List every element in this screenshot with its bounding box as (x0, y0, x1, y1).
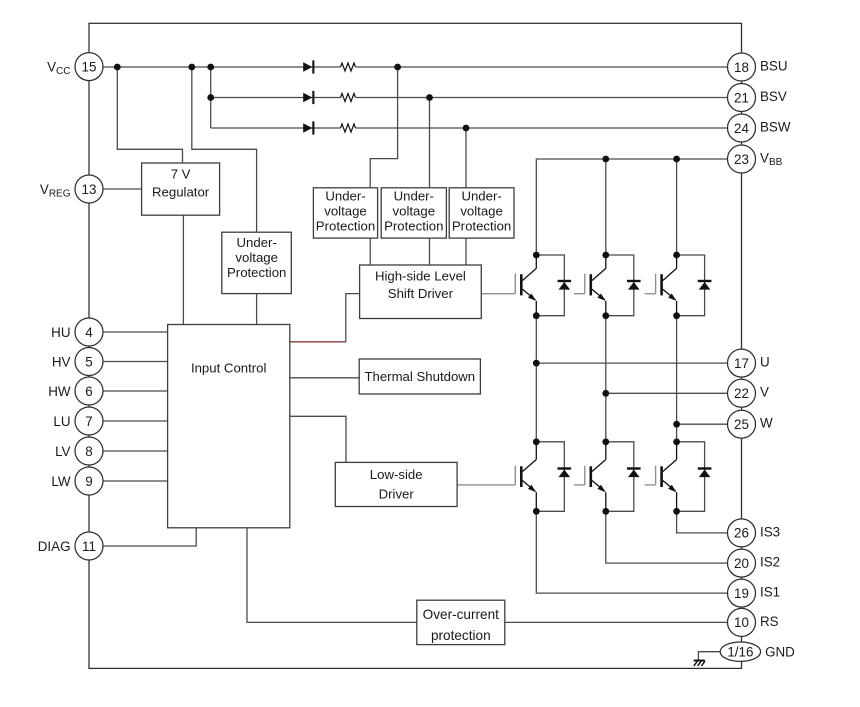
svg-text:U: U (760, 355, 770, 370)
wire gate stub low-side x676 (645, 484, 656, 486)
wire Input Control to over-current / RS (247, 528, 728, 623)
svg-text:1/16: 1/16 (727, 645, 753, 660)
wire BSV to under-voltage protection 2 (429, 98, 431, 188)
svg-text:Under-: Under- (394, 189, 434, 204)
svg-text:7: 7 (85, 414, 92, 429)
pin BSV 21 (728, 84, 787, 112)
svg-text:HU: HU (51, 325, 70, 340)
svg-text:9: 9 (85, 474, 92, 489)
wire IS2 sense (606, 511, 728, 563)
svg-text:26: 26 (734, 526, 749, 541)
pin BSU 18 (728, 53, 788, 81)
wire BSW bootstrap row (211, 124, 728, 132)
pin IS1 19 (728, 579, 781, 607)
svg-text:High-side Level: High-side Level (375, 268, 466, 283)
pin HW 6 (48, 377, 103, 405)
junction dots VBB rail (602, 156, 680, 163)
wire gate stub low-side x605 (574, 484, 585, 486)
svg-text:IS2: IS2 (760, 555, 780, 570)
wire LV pin to Input Control (103, 450, 168, 452)
wire LU pin to Input Control (103, 420, 168, 422)
wire U output (536, 362, 727, 364)
svg-text:Under-: Under- (325, 189, 365, 204)
wire to Thermal Shutdown (290, 377, 359, 379)
svg-text:21: 21 (734, 90, 749, 105)
wire VREG pin to regulator (103, 188, 142, 190)
svg-text:voltage: voltage (235, 250, 278, 265)
block high-side level shift driver (360, 265, 482, 319)
block thermal shutdown (359, 359, 480, 394)
junction dot BSW row (463, 125, 470, 132)
diode D1 (303, 60, 314, 73)
wire high-side gate-drive (red) (290, 341, 346, 343)
pin HU 4 (51, 318, 103, 346)
pin IS3 26 (728, 519, 781, 547)
block low-side driver (335, 462, 457, 506)
pin IS2 20 (728, 549, 781, 577)
transistor Q1 high-side U (515, 252, 571, 320)
svg-text:8: 8 (85, 444, 92, 459)
svg-text:DIAG: DIAG (38, 539, 71, 554)
wire High-side driver gate lead (481, 293, 515, 295)
junction dot V (602, 390, 609, 397)
transistor Q2 high-side V (585, 252, 641, 320)
svg-text:7 V: 7 V (171, 166, 191, 181)
wire under-voltage protection to Input Control (256, 294, 258, 325)
wire VBB drop to Q3 (676, 159, 678, 255)
wire BSU bootstrap row (103, 63, 728, 71)
transistor Q5 low-side V (585, 438, 641, 514)
svg-text:10: 10 (734, 615, 749, 630)
svg-text:HV: HV (52, 354, 71, 369)
svg-text:18: 18 (734, 60, 749, 75)
svg-text:13: 13 (82, 182, 97, 197)
svg-text:BSW: BSW (760, 119, 791, 134)
wire regulator to Input Control (182, 215, 184, 324)
svg-text:Under-: Under- (461, 189, 501, 204)
svg-text:19: 19 (734, 586, 749, 601)
pin LW 9 (51, 467, 103, 495)
svg-text:RS: RS (760, 614, 779, 629)
wire under-voltage protection 3 to high-side driver (465, 238, 467, 265)
svg-text:Input Control: Input Control (191, 360, 267, 375)
wire VBB rail (536, 159, 727, 255)
ground (694, 661, 705, 666)
svg-text:VBB: VBB (760, 150, 783, 168)
pin RS 10 (728, 608, 779, 636)
wire gate stub high-side x676 (645, 293, 656, 295)
wire V output (606, 392, 728, 394)
svg-text:Shift Driver: Shift Driver (388, 286, 454, 301)
wire under-voltage protection 2 to high-side driver (429, 238, 431, 265)
svg-text:Regulator: Regulator (152, 184, 210, 199)
block under-voltage protection (Vcc) (222, 232, 291, 293)
svg-text:BSU: BSU (760, 58, 788, 73)
svg-text:GND: GND (765, 645, 795, 660)
pin GND 1/16 (720, 642, 795, 661)
wire W output (677, 423, 728, 425)
pin LV 8 (55, 437, 103, 465)
wire gate stub high-side x605 (574, 293, 585, 295)
svg-text:11: 11 (82, 539, 96, 554)
wire BSV bootstrap row (211, 94, 728, 102)
svg-text:Protection: Protection (316, 219, 375, 234)
svg-text:15: 15 (82, 59, 97, 74)
svg-text:voltage: voltage (460, 204, 503, 219)
wire Vcc to under-voltage protection (192, 67, 257, 232)
junction dot U (533, 360, 540, 367)
svg-text:V: V (760, 385, 769, 400)
wire BSU to under-voltage protection 1 (370, 67, 397, 188)
svg-text:5: 5 (85, 354, 92, 369)
wire red riser to High-side driver (346, 294, 360, 342)
wire Vcc feed to BSV/BSW rows (210, 67, 212, 128)
svg-text:Protection: Protection (227, 265, 286, 280)
wire under-voltage protection 1 to high-side driver (369, 238, 371, 265)
svg-text:20: 20 (734, 556, 749, 571)
wire HU pin to Input Control (103, 331, 168, 333)
svg-text:Low-side: Low-side (370, 467, 423, 482)
transistor Q4 low-side U (515, 438, 571, 514)
junction dots Vcc row (114, 64, 401, 71)
wire LW pin to Input Control (103, 480, 168, 482)
svg-text:Protection: Protection (384, 219, 443, 234)
svg-text:VCC: VCC (47, 59, 70, 77)
wire to Low-side Driver (290, 416, 346, 462)
svg-text:24: 24 (734, 121, 749, 136)
pin VBB 23 (728, 145, 783, 173)
svg-text:protection: protection (431, 628, 491, 643)
wire GND pin to chassis ground (698, 652, 720, 661)
junction dot BSV row (207, 94, 433, 101)
pin U 17 (728, 349, 770, 377)
pin LU 7 (53, 407, 103, 435)
diode D3 (303, 121, 314, 134)
wire Vcc to regulator (117, 67, 182, 163)
svg-text:BSV: BSV (760, 89, 787, 104)
svg-text:voltage: voltage (324, 204, 367, 219)
pin W 25 (728, 410, 774, 438)
transistor Q3 high-side W (656, 252, 712, 320)
wire HW pin to Input Control (103, 390, 168, 392)
diode D2 (303, 91, 314, 104)
svg-text:HW: HW (48, 384, 71, 399)
svg-text:25: 25 (734, 417, 749, 432)
svg-text:23: 23 (734, 152, 749, 167)
block 7V regulator (142, 163, 220, 215)
block input control (168, 325, 290, 528)
block under-voltage protection 1 (313, 188, 377, 238)
wire VBB drop to Q2 (605, 159, 607, 255)
pin DIAG 11 (38, 532, 103, 560)
wire IS1 sense (536, 511, 727, 593)
junction dot W (673, 421, 680, 428)
pin V 22 (728, 379, 770, 407)
IC outline border (89, 23, 742, 668)
svg-text:Under-: Under- (237, 235, 277, 250)
svg-text:Thermal Shutdown: Thermal Shutdown (364, 369, 475, 384)
svg-text:6: 6 (85, 384, 92, 399)
pin VCC 15 (47, 53, 103, 81)
svg-text:IS3: IS3 (760, 524, 780, 539)
transistor Q6 low-side W (656, 438, 712, 514)
block under-voltage protection 3 (449, 188, 514, 238)
wire BSW to under-voltage protection 3 (465, 128, 467, 188)
svg-text:22: 22 (734, 386, 749, 401)
wire W phase leg (676, 316, 678, 442)
svg-text:Protection: Protection (452, 219, 511, 234)
wire IS3 sense (677, 511, 728, 533)
svg-text:LV: LV (55, 444, 70, 459)
svg-text:voltage: voltage (393, 204, 436, 219)
wire Low-side driver gate lead (457, 484, 515, 486)
svg-text:VREG: VREG (40, 182, 71, 200)
svg-text:LW: LW (51, 474, 70, 489)
svg-text:Driver: Driver (379, 487, 415, 502)
svg-text:W: W (760, 416, 773, 431)
pin HV 5 (52, 348, 103, 376)
svg-text:LU: LU (53, 414, 70, 429)
wire DIAG pin to Input Control (103, 528, 196, 546)
wire HV pin to Input Control (103, 361, 168, 363)
svg-text:4: 4 (85, 325, 93, 340)
wire U phase leg (535, 316, 537, 442)
pin VREG 13 (40, 175, 103, 203)
svg-text:Over-current: Over-current (423, 607, 500, 622)
svg-text:17: 17 (734, 356, 749, 371)
block over-current protection (417, 600, 505, 644)
block under-voltage protection 2 (381, 188, 446, 238)
wire V phase leg (605, 316, 607, 442)
pin BSW 24 (728, 114, 791, 142)
svg-text:IS1: IS1 (760, 585, 780, 600)
